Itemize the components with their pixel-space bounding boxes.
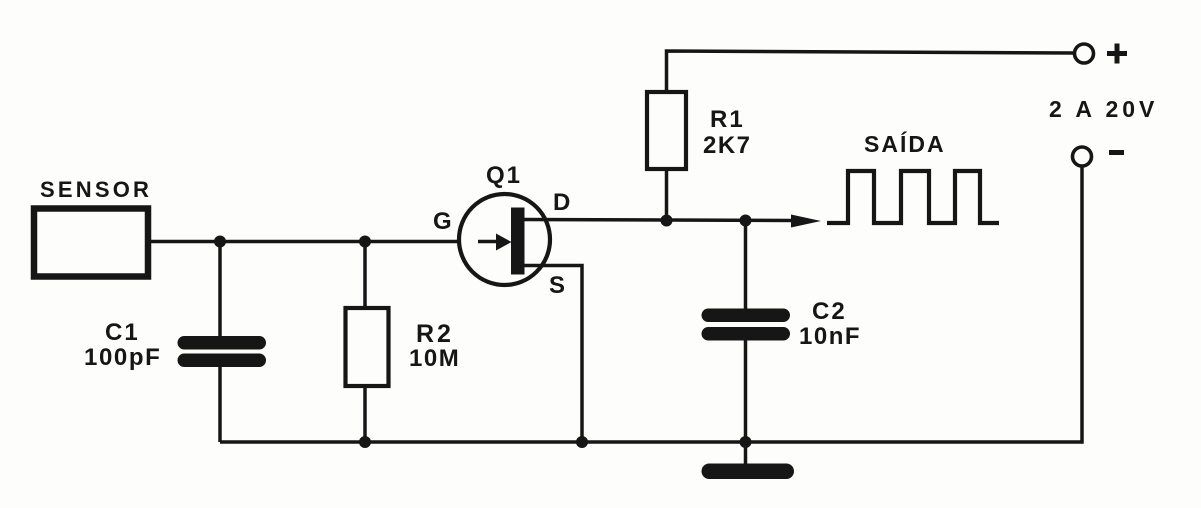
svg-text:R2: R2 bbox=[416, 320, 454, 348]
svg-text:D: D bbox=[553, 189, 570, 216]
wire R2 branch lower bbox=[363, 384, 367, 442]
square wave output bbox=[827, 171, 999, 223]
node junction R2 bottom bbox=[359, 436, 371, 448]
terminal plus bbox=[1075, 44, 1094, 63]
arrow output bbox=[791, 215, 821, 228]
plus sign bbox=[1107, 44, 1127, 64]
svg-text:Q1: Q1 bbox=[486, 162, 522, 189]
wire R2 branch upper bbox=[363, 242, 367, 311]
svg-text:100pF: 100pF bbox=[84, 344, 161, 371]
svg-text:2 A 20V: 2 A 20V bbox=[1049, 96, 1158, 122]
wire ground stub bbox=[744, 442, 748, 466]
wire source line bbox=[522, 266, 582, 443]
minus sign bbox=[1109, 150, 1124, 155]
wire drain line bbox=[522, 220, 793, 221]
capacitor C1 bbox=[178, 336, 267, 367]
terminal minus bbox=[1073, 147, 1092, 166]
svg-text:S: S bbox=[549, 272, 565, 299]
wire R1 top bbox=[667, 51, 1075, 94]
svg-text:G: G bbox=[433, 208, 452, 235]
label C1 value bbox=[84, 319, 161, 371]
capacitor C2 bbox=[702, 309, 791, 341]
svg-text:C2: C2 bbox=[812, 298, 847, 325]
sensor box bbox=[34, 209, 148, 277]
label R2 value bbox=[409, 320, 460, 372]
svg-text:2K7: 2K7 bbox=[703, 132, 752, 159]
node junction ground bbox=[740, 436, 752, 448]
svg-text:C1: C1 bbox=[105, 319, 140, 346]
wire R1 bottom bbox=[665, 167, 669, 221]
ground bbox=[702, 464, 795, 480]
label R1 value bbox=[703, 106, 752, 159]
wire C2 branch lower bbox=[744, 338, 748, 442]
resistor R2 bbox=[346, 308, 389, 386]
node junction R2 top bbox=[359, 236, 371, 248]
svg-text:SAÍDA: SAÍDA bbox=[864, 130, 946, 157]
node junction C1 top bbox=[214, 236, 226, 248]
node junction R1 bottom bbox=[661, 215, 673, 227]
wire C2 branch upper bbox=[744, 221, 748, 311]
transistor Q1 bbox=[459, 194, 550, 285]
svg-text:10M: 10M bbox=[409, 345, 460, 372]
svg-text:R1: R1 bbox=[710, 106, 745, 133]
wire bottom rail bbox=[220, 440, 1082, 444]
wire minus to bottom bbox=[1081, 165, 1082, 442]
resistor R1 bbox=[647, 92, 686, 169]
node junction source bottom bbox=[576, 436, 588, 448]
node junction C2 top bbox=[740, 215, 752, 227]
wire C1 branch lower bbox=[218, 365, 222, 442]
svg-text:SENSOR: SENSOR bbox=[40, 177, 152, 202]
svg-text:10nF: 10nF bbox=[799, 323, 861, 350]
wire sensor to gate bbox=[148, 240, 497, 244]
label C2 value bbox=[799, 298, 861, 350]
wire C1 branch upper bbox=[218, 242, 222, 339]
